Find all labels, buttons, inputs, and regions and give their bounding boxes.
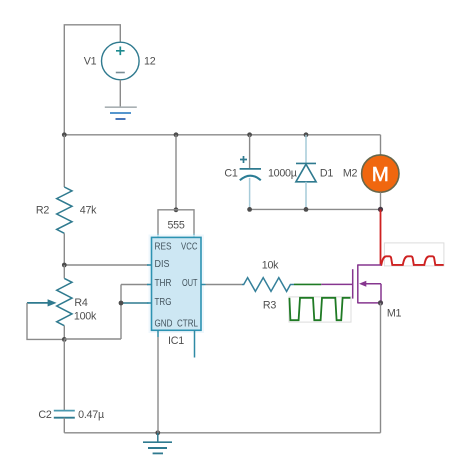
wire gate net purple segment bbox=[321, 283, 352, 285]
ground below V1 bbox=[105, 107, 137, 119]
node C1 bottom bbox=[247, 207, 252, 212]
node TRG junction bbox=[119, 301, 124, 306]
wire C1 top lead bbox=[249, 135, 251, 169]
svg-text:VCC: VCC bbox=[181, 242, 198, 253]
svg-text:D1: D1 bbox=[320, 167, 333, 179]
node 555 supply split bbox=[174, 207, 179, 212]
resistor R2 bbox=[57, 187, 72, 233]
potentiometer R4 bbox=[27, 278, 72, 325]
svg-text:V1: V1 bbox=[84, 56, 97, 68]
node M1 source junction bbox=[378, 300, 383, 305]
svg-text:OUT: OUT bbox=[182, 278, 198, 289]
wire C1 D1 M2 bottom rail bbox=[250, 208, 381, 210]
wire R4 bottom lead bbox=[63, 326, 65, 340]
svg-text:10k: 10k bbox=[262, 260, 279, 272]
transistor M1 MOSFET bbox=[353, 264, 381, 303]
wire C2 top lead bbox=[63, 339, 65, 410]
wire M1 source to ground rail bbox=[380, 303, 382, 433]
wire DIS net bbox=[64, 264, 151, 266]
wire top-left loop from V1+ to left rail bbox=[64, 25, 120, 135]
wire TRG net bbox=[121, 302, 152, 304]
svg-text:GND: GND bbox=[155, 318, 173, 329]
svg-text:R2: R2 bbox=[36, 205, 49, 217]
svg-text:DIS: DIS bbox=[155, 259, 170, 270]
svg-text:C1: C1 bbox=[224, 167, 237, 179]
pin stub VCC top bbox=[193, 234, 195, 238]
wire R2 top lead bbox=[63, 135, 65, 187]
svg-text:CTRL: CTRL bbox=[177, 318, 198, 329]
voltage source V1 bbox=[102, 42, 140, 80]
wire R4 top lead bbox=[63, 265, 65, 278]
svg-text:RES: RES bbox=[155, 242, 172, 253]
wire motor to drain red bbox=[380, 209, 382, 265]
wire V1 bottom to ground bbox=[119, 80, 121, 107]
node rail-R2 bbox=[62, 132, 67, 137]
wire GND pin to rail bbox=[157, 330, 159, 433]
wire R4 wiper loop bbox=[27, 303, 64, 340]
wire D1 top lead bbox=[305, 135, 307, 163]
pin stub TRG bbox=[147, 302, 152, 304]
waveform gate voltage green square bbox=[289, 298, 350, 320]
wire bottom ground rail bbox=[64, 432, 380, 434]
wire top +12V rail bbox=[64, 134, 380, 136]
svg-text:M: M bbox=[372, 163, 389, 186]
wire C1 bottom lead bbox=[249, 178, 251, 209]
wire gate net green segment bbox=[294, 283, 321, 285]
scope box gate waveform bbox=[289, 297, 351, 322]
wire 555 supply yoke bbox=[158, 210, 194, 234]
wire bottom of divider to pot junction bbox=[64, 338, 121, 340]
wire C2 bottom lead bbox=[63, 418, 65, 433]
wire M2 bottom lead bbox=[380, 192, 382, 209]
svg-text:0.47µ: 0.47µ bbox=[78, 409, 104, 421]
node D1 bottom bbox=[304, 207, 309, 212]
scope box drain waveform bbox=[384, 243, 444, 266]
node rail-555 bbox=[174, 132, 179, 137]
wire D1 bottom lead bbox=[305, 182, 307, 210]
svg-text:47k: 47k bbox=[80, 205, 97, 217]
svg-text:C2: C2 bbox=[38, 409, 51, 421]
capacitor C2 bbox=[54, 411, 75, 418]
node rail-D1 bbox=[304, 132, 309, 137]
svg-text:R4: R4 bbox=[74, 297, 87, 309]
svg-text:TRG: TRG bbox=[155, 297, 172, 308]
svg-text:R3: R3 bbox=[263, 300, 276, 312]
svg-text:M1: M1 bbox=[387, 308, 402, 320]
svg-text:12: 12 bbox=[144, 56, 156, 68]
pin stub RES top bbox=[157, 234, 159, 238]
diode D1 bbox=[296, 163, 316, 181]
wire rail to 555 supply bbox=[175, 135, 177, 210]
wire M2 top lead bbox=[380, 135, 382, 155]
op-amp-style IC body U1 (555 timer IC1) bbox=[149, 235, 205, 334]
pin stub THR bbox=[147, 284, 152, 286]
node rail-C1 bbox=[247, 132, 252, 137]
wire R2 bottom lead bbox=[63, 233, 65, 265]
svg-text:1000µ: 1000µ bbox=[268, 167, 297, 179]
waveform drain voltage red bbox=[381, 256, 444, 265]
svg-text:555: 555 bbox=[167, 219, 184, 231]
wire THR net horizontal bbox=[121, 284, 152, 286]
node R4 bottom junction bbox=[62, 337, 67, 342]
svg-text:THR: THR bbox=[155, 278, 172, 289]
wire OUT to R3 bbox=[206, 284, 243, 286]
svg-text:100k: 100k bbox=[74, 311, 97, 323]
svg-text:IC1: IC1 bbox=[168, 335, 184, 347]
node ground junction bbox=[155, 430, 160, 435]
wire THR-TRG vertical bbox=[120, 285, 122, 340]
pin stub OUT bbox=[201, 284, 206, 286]
capacitor C1 polarized bbox=[240, 156, 261, 180]
node DIS junction bbox=[62, 263, 67, 268]
motor M2 bbox=[362, 155, 399, 192]
pin stub DIS bbox=[147, 264, 152, 266]
node M2 bottom bbox=[378, 207, 383, 212]
svg-text:M2: M2 bbox=[343, 167, 358, 179]
resistor R3 bbox=[242, 278, 294, 292]
ground main bbox=[143, 433, 172, 454]
wire CTRL stub dangling bbox=[194, 330, 196, 357]
